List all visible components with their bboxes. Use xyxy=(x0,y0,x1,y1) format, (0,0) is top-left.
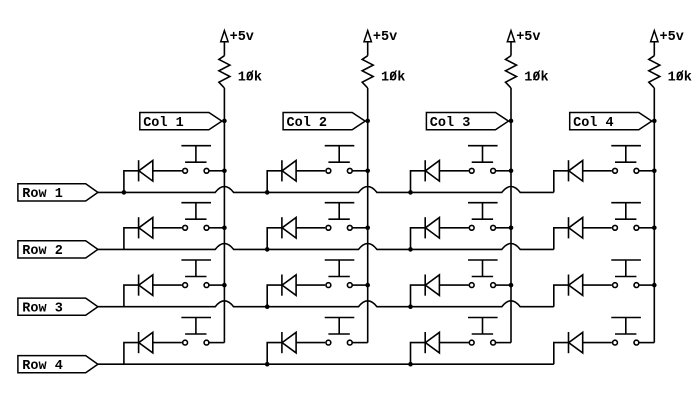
wire: switch S32 to column 2 line xyxy=(352,284,367,286)
diode D12 xyxy=(282,160,296,181)
+5v supply symbol (column 1) xyxy=(221,30,254,45)
wire from +5v symbol to resistor R4 xyxy=(653,42,655,56)
wire: switch S14 to column 4 line xyxy=(639,170,654,172)
diode D24 xyxy=(569,217,583,238)
junction dot: Row 2 / diode D22 stub xyxy=(265,247,270,252)
wire: diode D14 anode to switch S14 xyxy=(583,170,612,172)
diode D43 xyxy=(425,332,439,353)
svg-text:+5v: +5v xyxy=(230,30,254,45)
wire: stub from Row 4 up to diode D42 xyxy=(267,343,282,365)
wire: diode D43 anode to switch S43 xyxy=(439,342,468,344)
+5v supply symbol (column 3) xyxy=(507,30,540,45)
wire: stub from Row 2 up to diode D21 xyxy=(124,228,139,250)
diode D13 xyxy=(425,160,439,181)
wire: diode D32 anode to switch S32 xyxy=(296,284,325,286)
wire: switch S43 to column 3 line xyxy=(496,342,511,344)
push button switch S41 xyxy=(181,318,211,346)
wire: Row 1 horizontal net line with hops over column lines xyxy=(98,187,554,193)
push button switch S21 xyxy=(181,203,211,231)
junction dot: Col 4 label to column line xyxy=(652,119,657,124)
wire: diode D21 anode to switch S21 xyxy=(153,227,182,229)
wire: diode D23 anode to switch S23 xyxy=(439,227,468,229)
net label Col 4 pennant xyxy=(570,113,652,132)
resistor R1 10k pull-up xyxy=(219,56,262,88)
push button switch S34 xyxy=(611,260,641,288)
net label Col 2 pennant xyxy=(283,113,365,132)
junction dot: switch S13 to column 3 line xyxy=(509,169,514,174)
diode D33 xyxy=(425,275,439,296)
resistor R2 10k pull-up xyxy=(362,56,405,88)
diode D21 xyxy=(139,217,153,238)
diode D14 xyxy=(569,160,583,181)
wire: stub from Row 2 up to diode D24 xyxy=(554,228,569,250)
wire: switch S23 to column 3 line xyxy=(496,227,511,229)
wire: switch S31 to column 1 line xyxy=(209,284,224,286)
wire: column 3 vertical net line xyxy=(510,88,512,343)
wire: switch S13 to column 3 line xyxy=(496,170,511,172)
wire: switch S12 to column 2 line xyxy=(352,170,367,172)
push button switch S12 xyxy=(325,146,355,174)
svg-text:Row 4: Row 4 xyxy=(22,359,63,374)
junction dot: switch S24 to column 4 line xyxy=(652,226,657,231)
junction dot: switch S12 to column 2 line xyxy=(365,169,370,174)
wire: switch S42 to column 2 line xyxy=(352,342,367,344)
wire: switch S21 to column 1 line xyxy=(209,227,224,229)
junction dot: switch S32 to column 2 line xyxy=(365,283,370,288)
junction dot: switch S23 to column 3 line xyxy=(509,226,514,231)
junction dot: Row 1 / diode D13 stub xyxy=(408,190,413,195)
junction dot: Row 3 / diode D32 stub xyxy=(265,304,270,309)
wire: diode D31 anode to switch S31 xyxy=(153,284,182,286)
junction dot: Col 2 label to column line xyxy=(365,119,370,124)
junction dot: Col 3 label to column line xyxy=(509,119,514,124)
+5v supply symbol (column 2) xyxy=(364,30,397,45)
push button switch S31 xyxy=(181,260,211,288)
svg-text:Row 1: Row 1 xyxy=(22,187,63,202)
push button switch S43 xyxy=(468,318,498,346)
push button switch S42 xyxy=(325,318,355,346)
net label Col 1 pennant xyxy=(140,113,222,132)
wire: diode D11 anode to switch S11 xyxy=(153,170,182,172)
+5v supply symbol (column 4) xyxy=(651,30,684,45)
push button switch S44 xyxy=(611,318,641,346)
junction dot: switch S14 to column 4 line xyxy=(652,169,657,174)
push button switch S33 xyxy=(468,260,498,288)
diode D44 xyxy=(569,332,583,353)
diode D32 xyxy=(282,275,296,296)
net label Row 3 pennant xyxy=(18,298,98,316)
diode D34 xyxy=(569,275,583,296)
diode D23 xyxy=(425,217,439,238)
junction dot: switch S21 to column 1 line xyxy=(222,226,227,231)
svg-text:Col 2: Col 2 xyxy=(287,116,328,131)
wire: stub from Row 4 up to diode D44 xyxy=(554,343,569,365)
wire: switch S44 to column 4 line xyxy=(639,342,654,344)
junction dot: switch S33 to column 3 line xyxy=(509,283,514,288)
push button switch S32 xyxy=(325,260,355,288)
svg-text:+5v: +5v xyxy=(516,30,540,45)
resistor R3 10k pull-up xyxy=(506,56,549,88)
svg-text:Col 1: Col 1 xyxy=(143,116,184,131)
junction dot: Col 1 label to column line xyxy=(222,119,227,124)
wire: diode D42 anode to switch S42 xyxy=(296,342,325,344)
push button switch S24 xyxy=(611,203,641,231)
wire: diode D34 anode to switch S34 xyxy=(583,284,612,286)
wire: diode D33 anode to switch S33 xyxy=(439,284,468,286)
svg-text:+5v: +5v xyxy=(660,30,684,45)
junction dot: switch S34 to column 4 line xyxy=(652,283,657,288)
diode D11 xyxy=(139,160,153,181)
wire: column 2 vertical net line xyxy=(367,88,369,343)
push button switch S14 xyxy=(611,146,641,174)
svg-text:10k: 10k xyxy=(524,70,548,85)
push button switch S22 xyxy=(325,203,355,231)
push button switch S13 xyxy=(468,146,498,174)
resistor R4 10k pull-up xyxy=(649,56,692,88)
junction dot: switch S22 to column 2 line xyxy=(365,226,370,231)
wire: diode D24 anode to switch S24 xyxy=(583,227,612,229)
wire from +5v symbol to resistor R2 xyxy=(367,42,369,56)
wire: diode D22 anode to switch S22 xyxy=(296,227,325,229)
wire: Row 2 horizontal net line with hops over column lines xyxy=(98,244,554,250)
wire: stub from Row 1 up to diode D13 xyxy=(411,171,426,193)
wire: switch S22 to column 2 line xyxy=(352,227,367,229)
wire: switch S24 to column 4 line xyxy=(639,227,654,229)
push button switch S11 xyxy=(181,146,211,174)
wire: switch S41 to column 1 line xyxy=(209,342,224,344)
wire: switch S33 to column 3 line xyxy=(496,284,511,286)
diode D42 xyxy=(282,332,296,353)
wire: stub from Row 1 up to diode D14 xyxy=(554,171,569,193)
junction dot: Row 2 / diode D23 stub xyxy=(408,247,413,252)
wire: stub from Row 1 up to diode D11 xyxy=(124,171,139,193)
junction dot: Row 4 / diode D42 stub xyxy=(265,362,270,367)
wire: column 1 vertical net line xyxy=(223,88,225,343)
svg-text:10k: 10k xyxy=(381,70,405,85)
svg-text:+5v: +5v xyxy=(373,30,397,45)
junction dot: Row 1 / diode D12 stub xyxy=(265,190,270,195)
wire: stub from Row 2 up to diode D22 xyxy=(267,228,282,250)
wire: stub from Row 3 up to diode D34 xyxy=(554,285,569,307)
wire: switch S34 to column 4 line xyxy=(639,284,654,286)
diode D22 xyxy=(282,217,296,238)
svg-text:Col 4: Col 4 xyxy=(573,116,614,131)
junction dot: switch S11 to column 1 line xyxy=(222,169,227,174)
net label Row 2 pennant xyxy=(18,241,98,259)
wire: stub from Row 3 up to diode D33 xyxy=(411,285,426,307)
diode D41 xyxy=(139,332,153,353)
wire: stub from Row 3 up to diode D32 xyxy=(267,285,282,307)
wire from +5v symbol to resistor R3 xyxy=(510,42,512,56)
junction dot: switch S31 to column 1 line xyxy=(222,283,227,288)
push button switch S23 xyxy=(468,203,498,231)
wire: diode D41 anode to switch S41 xyxy=(153,342,182,344)
junction dot: Row 1 / diode D11 stub xyxy=(122,190,127,195)
net label Row 4 pennant xyxy=(18,356,98,374)
wire: diode D12 anode to switch S12 xyxy=(296,170,325,172)
net label Col 3 pennant xyxy=(426,113,508,132)
svg-text:10k: 10k xyxy=(668,70,692,85)
wire: stub from Row 1 up to diode D12 xyxy=(267,171,282,193)
wire: diode D44 anode to switch S44 xyxy=(583,342,612,344)
wire: stub from Row 4 up to diode D41 xyxy=(124,343,139,365)
wire from +5v symbol to resistor R1 xyxy=(223,42,225,56)
diode D31 xyxy=(139,275,153,296)
svg-text:Row 3: Row 3 xyxy=(22,301,63,316)
wire: column 4 vertical net line xyxy=(653,88,655,343)
wire: stub from Row 4 up to diode D43 xyxy=(411,343,426,365)
svg-text:Col 3: Col 3 xyxy=(430,116,471,131)
wire: diode D13 anode to switch S13 xyxy=(439,170,468,172)
svg-text:10k: 10k xyxy=(238,70,262,85)
net label Row 1 pennant xyxy=(18,184,98,202)
junction dot: Row 3 / diode D33 stub xyxy=(408,304,413,309)
wire: stub from Row 3 up to diode D31 xyxy=(124,285,139,307)
wire: switch S11 to column 1 line xyxy=(209,170,224,172)
svg-text:Row 2: Row 2 xyxy=(22,244,63,259)
wire: Row 3 horizontal net line with hops over column lines xyxy=(98,301,554,307)
wire: Row 4 horizontal net line with hops over column lines xyxy=(98,363,554,365)
junction dot: Row 4 / diode D43 stub xyxy=(408,362,413,367)
wire: stub from Row 2 up to diode D23 xyxy=(411,228,426,250)
